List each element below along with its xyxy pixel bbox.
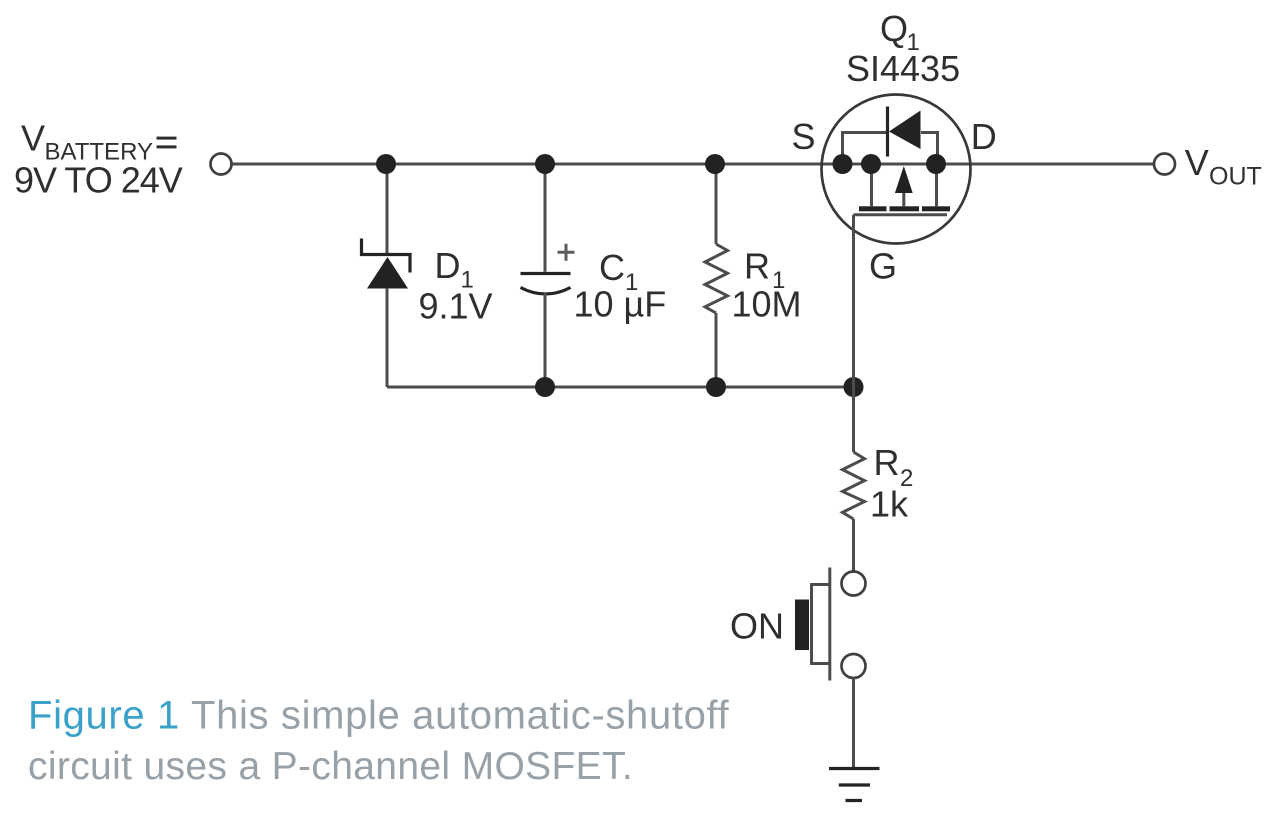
svg-text:9V TO 24V: 9V TO 24V (14, 160, 183, 201)
svg-text:S: S (792, 116, 816, 157)
svg-text:ON: ON (730, 606, 784, 647)
svg-text:circuit uses a P-channel MOSFE: circuit uses a P-channel MOSFET. (28, 745, 633, 788)
svg-text:G: G (869, 246, 897, 287)
svg-text:1k: 1k (870, 484, 909, 525)
svg-text:SI4435: SI4435 (846, 48, 960, 89)
svg-text:D: D (971, 116, 997, 157)
svg-text:10M: 10M (732, 284, 802, 325)
svg-text:Figure 1 This simple automatic: Figure 1 This simple automatic-shutoff (28, 694, 730, 738)
svg-text:R: R (744, 246, 770, 287)
svg-text:V: V (21, 118, 45, 159)
svg-text:9.1V: 9.1V (419, 286, 493, 327)
svg-text:R: R (874, 442, 900, 483)
svg-text:V: V (1185, 142, 1209, 183)
svg-text:10 µF: 10 µF (574, 284, 667, 325)
svg-text:Q: Q (880, 8, 908, 49)
svg-text:D: D (435, 245, 461, 286)
svg-text:OUT: OUT (1209, 163, 1262, 191)
svg-text:C: C (599, 247, 625, 288)
